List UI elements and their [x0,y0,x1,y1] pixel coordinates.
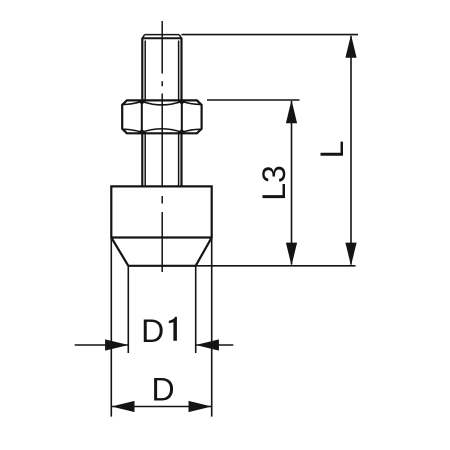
stud thread top end [142,35,181,39]
svg-text:L3: L3 [256,165,292,201]
centerline [161,21,163,272]
body (pressure piece): cylinder + cone [111,186,211,265]
dimension L3 [256,100,297,266]
extension line nut top (L3) [207,99,300,101]
hex nut [122,100,201,133]
dimension L [314,35,357,266]
svg-text:D: D [151,372,174,408]
stud thread lower section (between nut and body) [142,133,181,186]
extension line bottom (L/L3) [196,265,356,267]
stud thread upper section (above nut) [142,38,181,100]
svg-text:D: D [141,313,164,349]
svg-text:L: L [314,141,350,159]
extension lines D [110,238,112,417]
dimension D [111,372,211,413]
extension lines D1 [127,266,129,353]
extension line top (L) [182,34,359,36]
dimension D1 (arrows outside) [75,313,234,351]
